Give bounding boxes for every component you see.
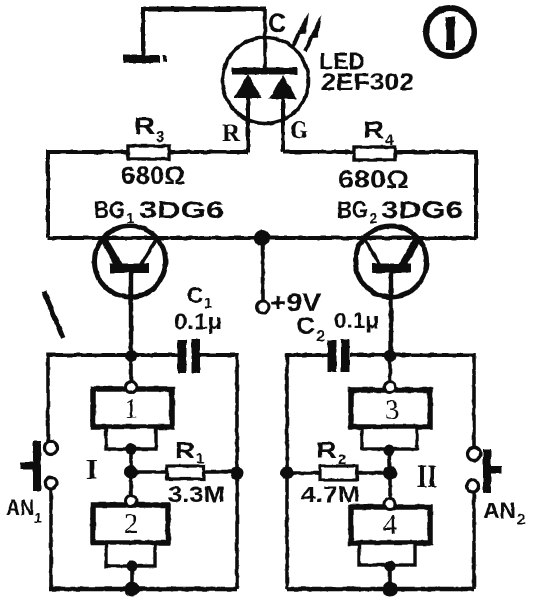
svg-text:3: 3 xyxy=(156,129,165,146)
junction box II mid node xyxy=(383,466,397,480)
label R2 xyxy=(316,437,346,468)
svg-text:1: 1 xyxy=(196,450,204,467)
svg-text:AN: AN xyxy=(483,498,516,523)
junction unit4 bottom xyxy=(385,561,396,572)
terminal unit2 top xyxy=(126,496,137,507)
svg-text:AN: AN xyxy=(6,495,34,520)
svg-text:0.1μ: 0.1μ xyxy=(174,309,222,334)
svg-text:3.3M: 3.3M xyxy=(168,482,225,507)
svg-text:C: C xyxy=(268,8,286,38)
svg-text:II: II xyxy=(417,459,437,495)
svg-text:C: C xyxy=(296,313,315,340)
svg-text:3DG6: 3DG6 xyxy=(381,197,463,224)
wire LED G lead xyxy=(281,99,285,152)
svg-text:BG: BG xyxy=(337,197,368,224)
wire left rail to R2 xyxy=(287,471,320,474)
svg-text:1: 1 xyxy=(34,510,42,527)
wire box II right rail upper xyxy=(472,353,476,448)
svg-text:BG: BG xyxy=(94,197,125,224)
svg-text:2: 2 xyxy=(124,509,138,540)
label R1 xyxy=(175,437,204,467)
label BG2 3DG6 xyxy=(337,197,463,227)
svg-text:R: R xyxy=(316,437,337,463)
label AN2 xyxy=(483,498,525,528)
wire BG2 base lead xyxy=(389,270,393,356)
terminal unit4 top xyxy=(385,499,396,510)
terminal AN1 upper xyxy=(45,442,58,455)
label R4 xyxy=(363,117,394,149)
svg-text:R: R xyxy=(363,117,384,144)
pushbutton AN2 xyxy=(483,449,502,493)
LED light emission arrows xyxy=(293,12,321,51)
wire box II left rail xyxy=(285,353,289,589)
svg-text:4.7M: 4.7M xyxy=(301,482,360,507)
terminal unit3 top xyxy=(385,382,396,393)
svg-text:R: R xyxy=(175,437,195,463)
transistor BG1 xyxy=(95,226,166,297)
unit 4 xyxy=(351,507,430,565)
junction box I right rail xyxy=(231,467,244,480)
ground chassis bar xyxy=(123,55,167,63)
wire box I top edge xyxy=(48,353,237,357)
transistor BG2 xyxy=(356,226,427,297)
figure number badge 1 xyxy=(426,8,474,56)
junction box II left rail node xyxy=(281,467,294,480)
terminal unit1 top xyxy=(126,382,137,393)
pushbutton AN1 xyxy=(20,441,41,491)
unit 1 xyxy=(93,389,172,449)
svg-text:2: 2 xyxy=(316,328,325,345)
stray pointer mark xyxy=(44,291,63,338)
terminal AN2 lower xyxy=(467,480,479,492)
junction box II top node xyxy=(384,350,396,362)
svg-text:2: 2 xyxy=(369,210,377,227)
LED U1 2EF302 xyxy=(223,9,309,124)
label AN1 xyxy=(6,495,42,527)
wire unit1 top lead xyxy=(129,356,133,382)
wire node to unit2 xyxy=(129,472,133,496)
svg-text:1: 1 xyxy=(124,394,138,425)
unit 2 xyxy=(93,505,168,566)
wire BG1 base lead xyxy=(129,270,133,356)
wire box II top edge xyxy=(287,353,474,357)
svg-text:2EF302: 2EF302 xyxy=(321,69,414,96)
wire unit1 to node xyxy=(129,449,133,472)
terminal AN2 upper xyxy=(468,448,481,461)
wire unit3 to node xyxy=(389,450,390,473)
svg-text:C: C xyxy=(187,282,203,308)
svg-text:2: 2 xyxy=(517,511,525,528)
wire node to R1 xyxy=(131,470,167,473)
wire box II right rail lower xyxy=(472,492,476,589)
svg-text:3DG6: 3DG6 xyxy=(139,197,224,224)
junction box I top node xyxy=(125,350,137,362)
svg-text:R: R xyxy=(134,113,155,140)
svg-text:4: 4 xyxy=(383,510,397,541)
junction box II bottom node xyxy=(383,582,398,597)
junction box I mid node xyxy=(124,465,138,479)
wire unit3 top lead xyxy=(388,356,392,382)
svg-text:3: 3 xyxy=(385,395,399,426)
wire top horizontal from chassis to LED cathode xyxy=(143,7,266,12)
wire unit2 to bottom rail xyxy=(130,566,134,589)
svg-text:4: 4 xyxy=(385,132,394,149)
wire LED R lead xyxy=(246,98,250,152)
capacitor C1 xyxy=(178,339,201,373)
wire box I bottom edge xyxy=(49,587,237,592)
junction box I bottom node xyxy=(125,582,140,597)
wire emitter bus xyxy=(48,236,476,240)
label C1 xyxy=(187,282,212,312)
wire box I left rail upper xyxy=(46,353,50,442)
label R3 xyxy=(134,113,165,146)
svg-text:R: R xyxy=(222,120,241,147)
wire node to unit4 xyxy=(388,473,392,499)
wire chassis drop xyxy=(141,7,145,56)
resistor R3 xyxy=(128,146,169,159)
svg-text:I: I xyxy=(86,454,98,486)
label C2 xyxy=(296,313,325,345)
resistor R4 xyxy=(354,147,395,160)
wire box I left rail lower xyxy=(49,489,53,589)
wire +9V drop xyxy=(261,238,265,301)
svg-text:2: 2 xyxy=(338,451,346,468)
wire box I right rail xyxy=(235,353,239,589)
wire box II bottom edge xyxy=(287,587,474,592)
label BG1 3DG6 xyxy=(94,197,224,227)
svg-text:680Ω: 680Ω xyxy=(338,166,409,194)
wire left top rail through R3 xyxy=(48,152,248,238)
junction unit3 bottom xyxy=(384,445,395,456)
junction unit2 bottom xyxy=(127,561,138,572)
svg-text:G: G xyxy=(290,117,308,144)
junction unit1 bottom xyxy=(126,444,137,455)
wire R2 to node xyxy=(357,471,390,474)
wire unit4 to bottom rail xyxy=(388,566,392,589)
wire right top rail through R4 xyxy=(283,152,476,238)
terminal +9V xyxy=(257,301,269,313)
junction +9V node xyxy=(254,230,270,246)
terminal AN1 lower xyxy=(45,477,57,489)
capacitor C2 xyxy=(328,339,350,372)
svg-text:680Ω: 680Ω xyxy=(121,162,185,190)
unit 3 xyxy=(351,390,430,449)
value label LED 2EF302 xyxy=(319,48,414,96)
wire R1 to right rail xyxy=(204,470,237,473)
resistor R1 xyxy=(167,466,204,479)
resistor R2 xyxy=(320,466,357,480)
svg-text:0.1μ: 0.1μ xyxy=(334,308,379,333)
